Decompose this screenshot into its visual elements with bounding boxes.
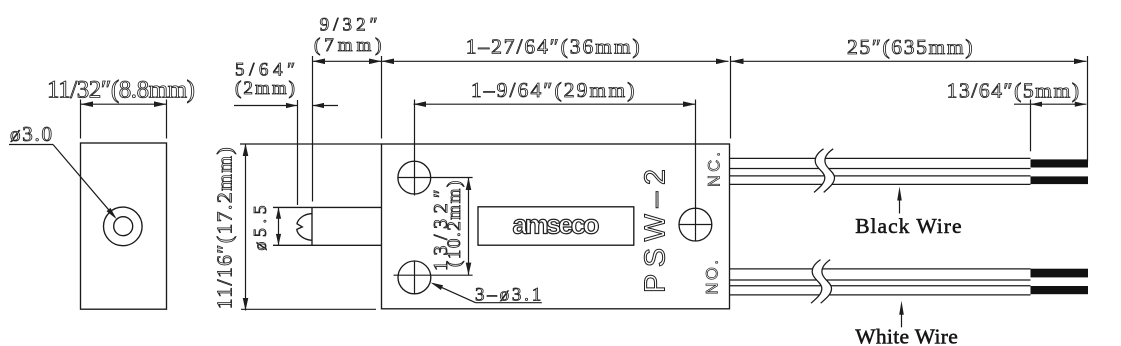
arrowhead 5.5 bottom [276,234,281,246]
wire line nc2 [730,168,1031,170]
break squiggle NC curve 2 [824,149,835,193]
crosshair v right hole + ext to 29mm dim [695,100,697,242]
dim line 5.5 vertical [278,207,280,245]
wire line nc4 [730,183,1031,185]
arrowhead 36mm right [716,59,729,65]
arrowhead black wire [897,187,902,201]
dim line row y61 (7mm,36mm) [313,60,729,62]
arrowhead 11/32 right [154,101,167,107]
ext line x730 (36mm/25in) [730,56,732,139]
break squiggle NO curve 2 [821,260,832,304]
screw hole circle top-left [398,161,431,194]
arrowhead 29mm right [683,101,696,107]
ext line x1030.6 (5mm) [1030,100,1032,152]
svg-text:(2mm): (2mm) [235,78,295,99]
crosshair h right hole [679,224,712,226]
arrowhead ø3.0 leader [107,208,117,219]
svg-text:Black Wire: Black Wire [855,214,961,238]
wires group NC [730,158,1031,295]
plunger left edge [311,207,313,245]
svg-text:(10.2mm): (10.2mm) [444,181,465,267]
break squiggle NC curve 1 [814,149,825,193]
wire line nc3 [730,175,1031,177]
ext line x297.6 (2mm) [297,100,299,205]
dim line 11/32 [81,103,167,105]
ext line left of 11/32 dim [80,100,82,139]
svg-text:PSW–2: PSW–2 [640,169,672,293]
arrowhead 2mm left (outside) [286,103,298,108]
ext line x1088 (25in/5mm) [1087,56,1089,162]
arrowhead 29mm left [414,101,427,107]
leader 3-ø3.1 diagonal [433,284,476,303]
crosshair h top-left hole + ext to 10.2 dim [398,177,473,179]
dim line 17.2mm vertical [245,144,247,311]
arrowhead 36mm left [382,59,395,65]
svg-text:9/32″: 9/32″ [320,15,378,36]
crosshair v bottom-left hole [414,261,416,294]
arrowhead 25in right [1074,59,1087,65]
side-view plate [81,143,167,309]
ext line right of 11/32 dim [166,100,168,139]
stripped wire end nc1 [1031,159,1089,167]
wire line no1 [730,268,1031,270]
arrowhead 7mm left [313,59,326,65]
svg-text:NO.: NO. [703,260,721,295]
plunger bottom edge + extension [273,244,382,246]
svg-text:ø3.0: ø3.0 [10,122,52,146]
arrowhead 5.5 top [276,207,281,219]
svg-text:1–27/64″(36mm): 1–27/64″(36mm) [466,35,640,59]
arrowhead 10.2 bottom [466,263,472,276]
leader ø3.0 diagonal [53,145,115,218]
arrowhead 5mm right [1075,102,1087,107]
break symbol white gap NC [814,149,835,193]
hole inner circle (ø3.0) [114,217,133,236]
break symbol white gap NO [811,260,832,304]
black wire leader line [899,194,901,214]
dim line 10.2 vertical [468,178,470,276]
arrowhead 7mm right [369,59,382,65]
plunger rounded tip arc [297,214,312,241]
leader ø3.0 underline [9,144,53,146]
svg-text:25″(635mm): 25″(635mm) [847,35,973,59]
leader 3-ø3.1 underline [476,302,542,304]
arrowhead 17.2 top [243,144,249,157]
ext line x381.7 (7mm/36mm) [381,56,383,139]
svg-text:White Wire: White Wire [855,325,958,346]
arrowhead white wire [899,301,904,315]
crosshair h bottom-left hole + ext to 10.2 dim [394,274,473,276]
stripped wire end no2 [1031,286,1089,294]
svg-text:1–9/64″(29mm): 1–9/64″(29mm) [471,78,635,102]
arrowhead 5mm left [1031,102,1043,107]
screw hole circle right [679,208,712,241]
screw hole circle bottom-left [398,261,431,294]
hole outer circle [104,207,143,246]
arrowhead 25in left [731,59,744,65]
svg-text:amseco: amseco [513,210,600,240]
white wire leader line [901,308,903,327]
ext line x312 (7mm/2mm) [312,56,314,202]
arrowhead 3-ø3.1 leader [431,283,444,291]
body bottom ext left [241,308,376,310]
plunger top edge + extension [273,206,382,208]
svg-text:ø5.5: ø5.5 [250,205,270,250]
svg-text:11/32″(8.8mm): 11/32″(8.8mm) [47,77,195,104]
wire line no4 [730,294,1031,296]
svg-text:11/16″(17.2mm): 11/16″(17.2mm) [213,147,237,309]
amseco logo box [478,207,634,245]
wire line no2 [730,279,1031,281]
arrowhead 2mm right (outside) [313,103,325,108]
switch body rect [382,144,730,309]
body top edge ext left [240,143,382,145]
wire line no3 [730,285,1031,287]
svg-text:NC.: NC. [706,152,724,187]
dim line 2mm right tail [313,105,339,107]
svg-text:13/64″(5mm): 13/64″(5mm) [947,79,1079,103]
dim line 25in [731,60,1087,62]
arrowhead 10.2 top [466,178,472,191]
crosshair v top-left hole + ext to 29mm dim [414,100,416,196]
arrowhead 17.2 bottom [243,298,249,311]
dim line 5mm [1014,103,1086,105]
stripped wire end no1 [1031,269,1089,278]
break squiggle NO curve 1 [811,260,822,304]
dim line 29mm [414,103,696,105]
svg-text:(7mm): (7mm) [314,35,382,56]
dim line 2mm left tail [234,105,298,107]
wire line nc1 [730,157,1031,159]
stripped wire end nc2 [1031,176,1089,184]
arrowhead 11/32 left [81,101,94,107]
